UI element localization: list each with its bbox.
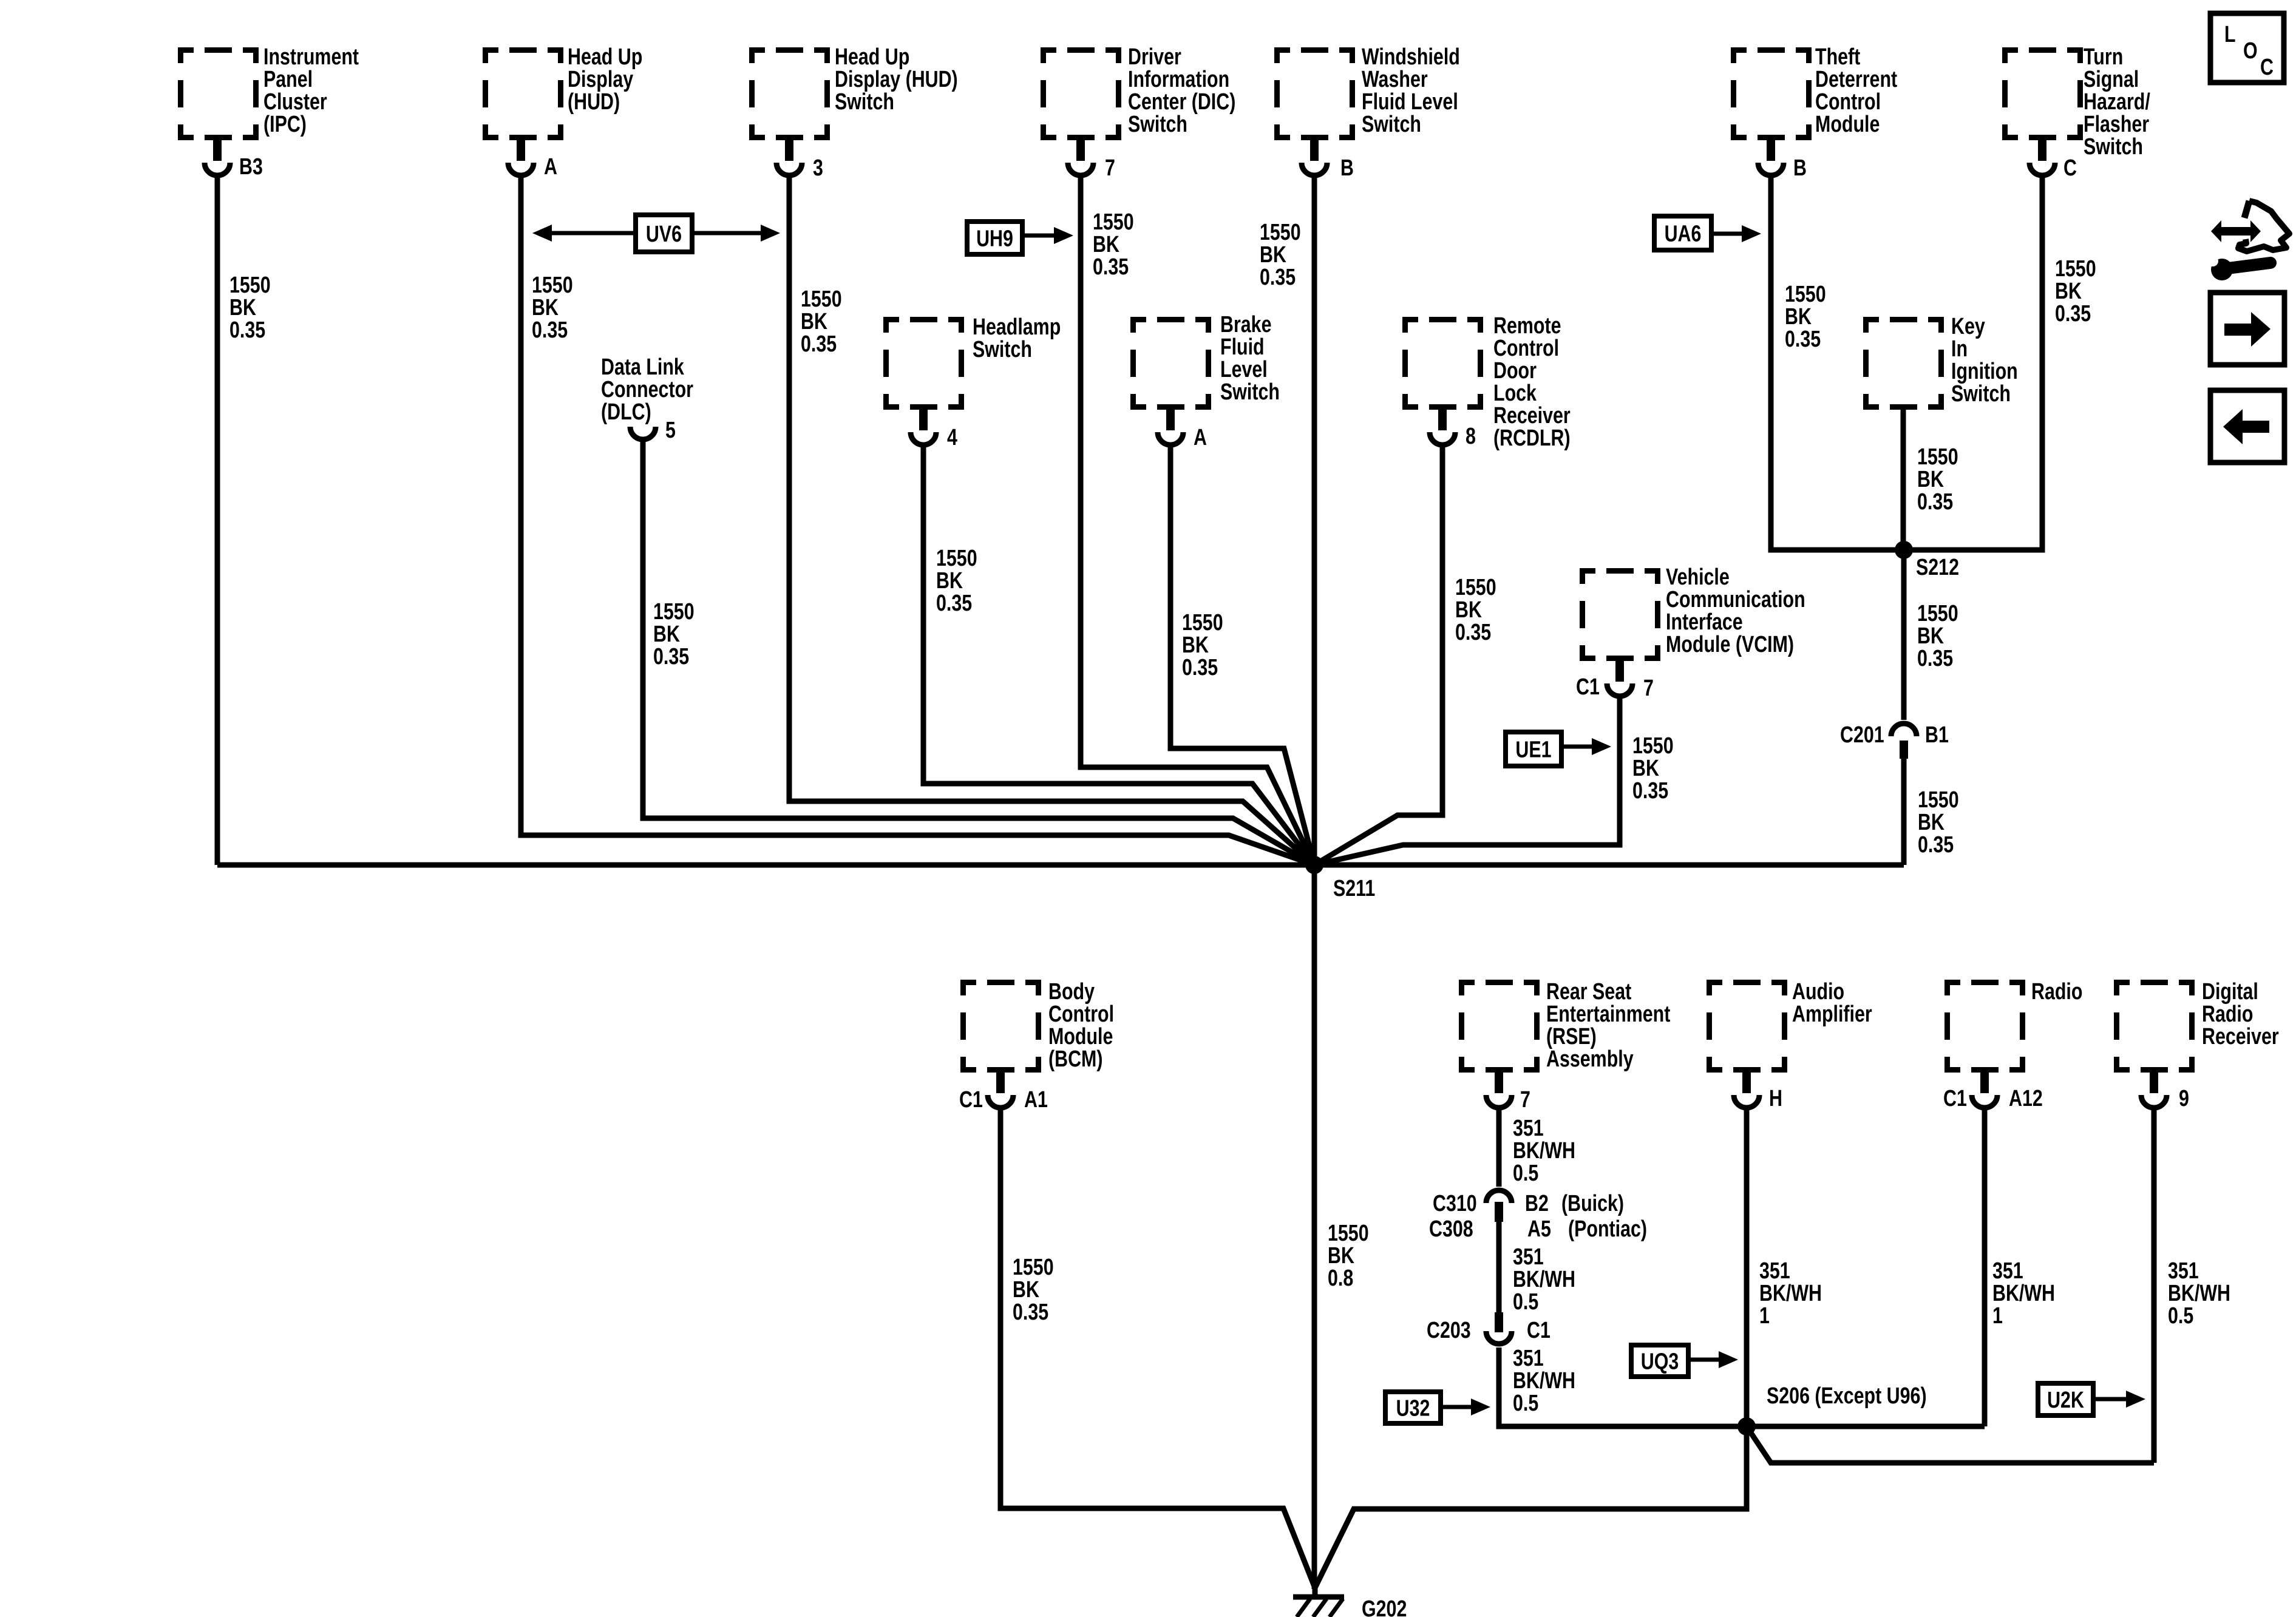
svg-text:S206 (Except U96): S206 (Except U96) [1767, 1383, 1927, 1409]
svg-text:9: 9 [2179, 1086, 2189, 1111]
svg-text:C: C [2260, 55, 2274, 80]
option box UE1 [1506, 732, 1561, 766]
svg-text:1550: 1550 [1093, 209, 1134, 235]
svg-text:0.35: 0.35 [532, 317, 568, 343]
flasher connector pin C [2038, 140, 2046, 161]
theft connector pin B [1767, 140, 1775, 161]
svg-text:BK: BK [801, 309, 827, 334]
wire BCM A1 to G202 [1000, 1109, 1315, 1588]
diagnostic tool icon (arrows and wrench) [2211, 220, 2261, 242]
wire headlamp switch 4 to S211 [923, 446, 1314, 865]
svg-text:BK/WH: BK/WH [1513, 1138, 1575, 1164]
svg-text:351: 351 [1992, 1258, 2023, 1284]
brake fluid level switch box [1130, 317, 1211, 410]
svg-text:0.35: 0.35 [1918, 832, 1954, 858]
svg-text:UV6: UV6 [646, 222, 682, 247]
svg-text:Connector: Connector [601, 377, 693, 402]
svg-text:0.5: 0.5 [2168, 1303, 2193, 1329]
UV6 double arrow [549, 231, 763, 236]
svg-text:BK: BK [1785, 304, 1812, 330]
option box UQ3 [1631, 1345, 1688, 1377]
svg-text:0.8: 0.8 [1328, 1266, 1353, 1291]
svg-text:Switch: Switch [1362, 112, 1421, 137]
svg-text:4: 4 [947, 425, 957, 450]
svg-text:Cluster: Cluster [263, 89, 327, 115]
svg-text:351: 351 [1513, 1116, 1544, 1141]
svg-text:O: O [2243, 38, 2258, 64]
wire S212 to C201 [1901, 550, 1907, 720]
svg-text:BK/WH: BK/WH [1759, 1281, 1822, 1306]
svg-text:UA6: UA6 [1665, 221, 1702, 246]
svg-text:Windshield: Windshield [1362, 44, 1460, 70]
svg-text:0.5: 0.5 [1513, 1289, 1538, 1315]
RSE connector pin 7 [1495, 1073, 1503, 1093]
svg-text:BK/WH: BK/WH [2168, 1281, 2230, 1306]
svg-text:1550: 1550 [1917, 601, 1958, 626]
wire brake switch A to S211 [1170, 446, 1314, 865]
svg-text:Information: Information [1128, 67, 1229, 92]
digital radio receiver box [2114, 980, 2195, 1073]
svg-text:0.35: 0.35 [1260, 265, 1296, 290]
svg-text:S212: S212 [1916, 555, 1959, 580]
svg-text:0.35: 0.35 [2055, 301, 2091, 327]
wire S206 to digital radio receiver branch [1747, 1426, 2154, 1463]
svg-text:1550: 1550 [1785, 282, 1826, 307]
svg-text:1550: 1550 [936, 546, 977, 571]
svg-text:7: 7 [1643, 676, 1654, 701]
radio connector C1 pin A12 [1980, 1073, 1989, 1093]
wire washer switch B to S211 (main vertical) [1312, 177, 1317, 865]
washer connector pin B [1310, 140, 1319, 161]
svg-text:Interface: Interface [1666, 609, 1743, 635]
svg-text:Communication: Communication [1666, 587, 1805, 612]
wire HUD switch 3 to S211 [789, 177, 1314, 865]
svg-text:Control: Control [1815, 89, 1881, 115]
wire DLC 5 to S211 [643, 441, 1314, 865]
svg-text:0.35: 0.35 [229, 317, 265, 343]
svg-text:S211: S211 [1333, 876, 1375, 901]
svg-text:(DLC): (DLC) [601, 399, 651, 425]
svg-text:BK: BK [229, 295, 256, 320]
svg-text:H: H [1769, 1086, 1782, 1111]
svg-text:Lock: Lock [1493, 381, 1537, 406]
rear seat entertainment RSE assembly box [1459, 980, 1540, 1073]
svg-text:Brake: Brake [1220, 312, 1272, 337]
svg-text:Digital: Digital [2202, 979, 2258, 1005]
svg-text:Flasher: Flasher [2084, 112, 2149, 137]
DIC connector pin 7 [1076, 140, 1085, 161]
svg-text:Display: Display [568, 67, 633, 92]
wire C201 B1 to S211 horizontal [1901, 759, 1907, 865]
wire RCDLR 8 to S211 [1314, 446, 1442, 865]
svg-text:Assembly: Assembly [1546, 1046, 1634, 1072]
svg-text:1550: 1550 [1328, 1221, 1369, 1246]
svg-text:1550: 1550 [2055, 256, 2096, 282]
svg-text:(RSE): (RSE) [1546, 1024, 1597, 1049]
wire audio amplifier H to S206 [1744, 1109, 1750, 1426]
svg-text:Ignition: Ignition [1951, 359, 2018, 384]
svg-text:Theft: Theft [1815, 44, 1861, 70]
svg-text:UH9: UH9 [976, 226, 1013, 251]
junction S206 [1737, 1417, 1756, 1436]
svg-text:351: 351 [1513, 1346, 1544, 1371]
connector C201 arc [1891, 724, 1917, 736]
UQ3 arrow [1688, 1358, 1720, 1362]
svg-text:C310: C310 [1433, 1191, 1477, 1216]
wire RSE 7 to C310 [1496, 1109, 1502, 1187]
svg-text:BK: BK [1182, 632, 1209, 658]
svg-text:Deterrent: Deterrent [1815, 67, 1898, 92]
svg-text:A: A [1194, 425, 1207, 450]
svg-text:Vehicle: Vehicle [1666, 564, 1730, 590]
svg-text:B2: B2 [1525, 1191, 1549, 1216]
LOC legend box [2210, 13, 2284, 83]
svg-text:BK: BK [1632, 756, 1659, 781]
wire S206 to G202 [1315, 1426, 1747, 1588]
svg-text:BK: BK [532, 295, 559, 320]
svg-text:0.35: 0.35 [1917, 646, 1953, 671]
svg-text:C: C [2063, 155, 2077, 181]
svg-text:C1: C1 [1943, 1086, 1967, 1111]
svg-text:B: B [1340, 155, 1354, 181]
svg-text:5: 5 [665, 418, 676, 443]
BCM connector C1 pin A1 [996, 1073, 1005, 1093]
svg-text:Fluid Level: Fluid Level [1362, 89, 1458, 115]
svg-text:Signal: Signal [2084, 67, 2139, 92]
head up display HUD box [483, 47, 563, 140]
svg-text:Control: Control [1493, 336, 1559, 361]
svg-text:Headlamp: Headlamp [973, 314, 1061, 340]
svg-text:0.35: 0.35 [1785, 327, 1821, 352]
svg-text:Center (DIC): Center (DIC) [1128, 89, 1235, 115]
option box U32 [1385, 1392, 1441, 1423]
svg-text:B: B [1793, 155, 1807, 181]
wire key in ignition to S212 [1901, 409, 1906, 550]
svg-text:Door: Door [1493, 358, 1537, 384]
VCIM connector C1 pin 7 [1615, 661, 1624, 682]
svg-text:C1: C1 [1527, 1318, 1550, 1343]
svg-text:1550: 1550 [1632, 733, 1674, 759]
svg-text:Switch: Switch [835, 89, 894, 115]
svg-text:351: 351 [2168, 1258, 2199, 1284]
headlamp switch box [883, 317, 964, 410]
svg-text:Rear Seat: Rear Seat [1546, 979, 1632, 1005]
svg-text:1550: 1550 [653, 599, 695, 625]
connector C203 [1495, 1312, 1503, 1332]
svg-text:(IPC): (IPC) [263, 112, 307, 137]
svg-text:7: 7 [1520, 1087, 1530, 1113]
option box UH9 [967, 222, 1022, 254]
svg-text:Module: Module [1815, 112, 1880, 137]
brake connector pin A [1166, 410, 1175, 430]
svg-text:Switch: Switch [1951, 381, 2011, 407]
svg-text:0.5: 0.5 [1513, 1161, 1538, 1186]
svg-text:BK: BK [1917, 623, 1944, 649]
svg-text:Receiver: Receiver [2202, 1024, 2279, 1049]
option box UV6 [636, 215, 692, 252]
svg-text:Data Link: Data Link [601, 354, 685, 380]
svg-text:0.35: 0.35 [1093, 254, 1129, 280]
svg-text:(BCM): (BCM) [1048, 1046, 1102, 1072]
instrument panel cluster IPC box [178, 47, 259, 140]
svg-text:8: 8 [1466, 424, 1476, 449]
svg-text:Switch: Switch [2084, 134, 2143, 160]
svg-text:0.35: 0.35 [653, 644, 689, 670]
svg-text:0.35: 0.35 [1455, 620, 1491, 645]
svg-text:3: 3 [813, 155, 823, 181]
wire DIC switch 7 to S211 [1081, 177, 1314, 865]
svg-text:BK/WH: BK/WH [1992, 1281, 2055, 1306]
svg-text:Module (VCIM): Module (VCIM) [1666, 632, 1794, 657]
ground G202 symbol [1313, 1588, 1318, 1597]
svg-text:U32: U32 [1396, 1395, 1430, 1421]
turn signal hazard flasher switch box [2002, 47, 2083, 140]
IPC connector pin B3 [213, 140, 222, 161]
svg-text:Head Up: Head Up [568, 44, 642, 70]
option box U2K [2038, 1383, 2093, 1415]
svg-text:Module: Module [1048, 1024, 1113, 1049]
key in ignition switch box [1863, 317, 1944, 410]
svg-text:BK: BK [1093, 232, 1119, 257]
RCDLR connector pin 8 [1438, 410, 1447, 430]
audio amplifier connector pin H [1742, 1073, 1751, 1093]
svg-text:1550: 1550 [1918, 787, 1959, 813]
wire VCIM 7 to S211 [1314, 697, 1620, 865]
svg-text:(Buick): (Buick) [1561, 1191, 1624, 1216]
UH9 arrow [1022, 234, 1055, 238]
UE1 arrow [1561, 745, 1593, 749]
svg-text:Audio: Audio [1792, 979, 1844, 1005]
svg-text:BK/WH: BK/WH [1513, 1368, 1575, 1394]
svg-text:0.35: 0.35 [1013, 1300, 1048, 1325]
svg-text:Switch: Switch [1220, 379, 1280, 405]
svg-text:C201: C201 [1840, 722, 1884, 748]
DLC connector pin 5 [630, 427, 656, 439]
svg-text:BK: BK [1260, 242, 1286, 268]
svg-text:Radio: Radio [2202, 1002, 2253, 1027]
svg-text:Panel: Panel [263, 67, 313, 92]
svg-text:B1: B1 [1925, 722, 1949, 748]
svg-text:U2K: U2K [2047, 1388, 2084, 1413]
svg-text:Remote: Remote [1493, 313, 1561, 339]
svg-text:1550: 1550 [532, 273, 573, 298]
svg-text:Hazard/: Hazard/ [2084, 89, 2150, 115]
wire flasher switch C to S212 [1904, 177, 2042, 550]
svg-text:1550: 1550 [801, 286, 842, 312]
svg-text:Display (HUD): Display (HUD) [835, 67, 958, 92]
svg-text:Entertainment: Entertainment [1546, 1002, 1671, 1027]
svg-text:Level: Level [1220, 357, 1268, 382]
svg-text:0.35: 0.35 [801, 331, 837, 357]
U2K arrow [2093, 1397, 2127, 1402]
svg-text:G202: G202 [1362, 1596, 1407, 1617]
radio box [1944, 980, 2025, 1073]
svg-text:C1: C1 [1576, 674, 1600, 700]
HUD connector pin A [517, 140, 525, 161]
wire C308 to C203 [1496, 1222, 1502, 1314]
svg-text:Switch: Switch [973, 337, 1032, 362]
wire C203 C1 to S206 and radio [1499, 1347, 1985, 1426]
UA6 arrow [1711, 232, 1743, 236]
svg-text:Washer: Washer [1362, 67, 1428, 92]
HUD switch connector pin 3 [785, 140, 793, 161]
svg-text:1550: 1550 [1013, 1255, 1054, 1280]
svg-text:Turn: Turn [2084, 44, 2123, 70]
svg-text:Radio: Radio [2031, 979, 2082, 1005]
svg-text:(RCDLR): (RCDLR) [1493, 425, 1571, 451]
driver information center DIC switch box [1041, 47, 1121, 140]
svg-text:0.35: 0.35 [1917, 489, 1953, 515]
svg-text:In: In [1951, 336, 1968, 362]
svg-text:BK: BK [1455, 597, 1482, 623]
vehicle communication interface module VCIM box [1580, 568, 1660, 661]
svg-text:C308: C308 [1429, 1216, 1473, 1242]
svg-text:B3: B3 [239, 154, 263, 180]
svg-text:1: 1 [1992, 1303, 2003, 1329]
junction S212 [1895, 541, 1913, 559]
digital radio receiver connector pin 9 [2150, 1073, 2158, 1093]
svg-text:0.35: 0.35 [1182, 655, 1218, 680]
svg-text:BK: BK [653, 622, 680, 647]
headlamp connector pin 4 [919, 410, 928, 430]
remote control door lock receiver RCDLR box [1402, 317, 1483, 410]
svg-text:BK: BK [1917, 467, 1944, 492]
svg-text:Amplifier: Amplifier [1792, 1002, 1872, 1027]
svg-text:Switch: Switch [1128, 112, 1187, 137]
svg-text:UE1: UE1 [1515, 737, 1551, 762]
svg-text:1550: 1550 [1260, 220, 1301, 245]
option box UA6 [1654, 216, 1711, 250]
theft deterrent control module box [1731, 47, 1812, 140]
svg-text:BK/WH: BK/WH [1513, 1267, 1575, 1292]
svg-text:A12: A12 [2009, 1086, 2043, 1111]
svg-text:A1: A1 [1024, 1087, 1048, 1113]
connector C310/C308 [1486, 1190, 1512, 1203]
svg-text:BK: BK [2055, 279, 2082, 304]
svg-text:Key: Key [1951, 314, 1985, 339]
svg-text:1: 1 [1759, 1303, 1770, 1329]
svg-text:351: 351 [1513, 1244, 1544, 1270]
svg-text:Instrument: Instrument [263, 44, 359, 70]
svg-text:BK: BK [1013, 1277, 1039, 1303]
svg-text:1550: 1550 [1917, 444, 1958, 470]
svg-text:Control: Control [1048, 1002, 1114, 1027]
svg-text:BK: BK [1328, 1243, 1354, 1269]
svg-text:1550: 1550 [1182, 610, 1223, 636]
svg-text:UQ3: UQ3 [1641, 1349, 1679, 1374]
svg-text:A: A [544, 154, 557, 180]
body control module BCM box [960, 980, 1041, 1073]
svg-text:351: 351 [1759, 1258, 1790, 1284]
wire HUD A to S211 [521, 177, 1314, 865]
svg-text:C203: C203 [1427, 1318, 1471, 1343]
wire IPC B3 to S211 (vertical) [215, 177, 220, 865]
svg-text:0.35: 0.35 [1632, 778, 1668, 804]
svg-text:Receiver: Receiver [1493, 403, 1571, 429]
wire S211 to G202 (main vertical) [1312, 865, 1317, 1589]
svg-text:BK: BK [936, 568, 963, 594]
svg-text:(Pontiac): (Pontiac) [1568, 1216, 1647, 1242]
svg-text:0.5: 0.5 [1513, 1391, 1538, 1416]
junction S211 [1305, 856, 1323, 874]
svg-text:Body: Body [1048, 979, 1095, 1005]
audio amplifier box [1707, 980, 1787, 1073]
svg-text:C1: C1 [959, 1087, 983, 1113]
svg-text:1550: 1550 [229, 273, 271, 298]
wire digital radio receiver 9 down [2152, 1109, 2157, 1463]
forward arrow legend box [2210, 293, 2284, 365]
HUD switch box [749, 47, 830, 140]
svg-text:0.35: 0.35 [936, 591, 972, 616]
svg-text:A5: A5 [1527, 1216, 1551, 1242]
U32 arrow [1441, 1405, 1472, 1409]
svg-text:Driver: Driver [1128, 44, 1181, 70]
svg-text:Head Up: Head Up [835, 44, 909, 70]
svg-text:L: L [2224, 22, 2236, 47]
svg-text:7: 7 [1105, 155, 1115, 181]
wire radio A12 down [1982, 1109, 1988, 1426]
svg-text:BK: BK [1918, 810, 1944, 835]
svg-text:Fluid: Fluid [1220, 334, 1265, 360]
windshield washer fluid level switch box [1274, 47, 1355, 140]
svg-text:(HUD): (HUD) [568, 89, 620, 115]
wire theft module B to S212 [1771, 177, 1904, 550]
wire S211 main horizontal [217, 863, 1904, 868]
svg-text:1550: 1550 [1455, 575, 1496, 600]
back arrow legend box [2210, 390, 2284, 463]
